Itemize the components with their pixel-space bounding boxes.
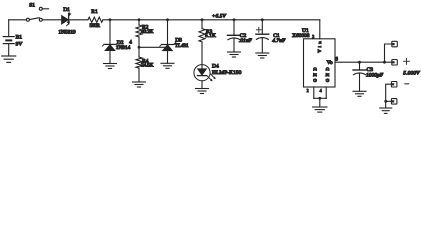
wire: rail to C2 <box>233 20 235 36</box>
connector J3 (- sense) <box>391 82 397 88</box>
svg-text:560R: 560R <box>90 23 101 29</box>
wire: R4 to ground <box>138 68 140 82</box>
wire: up to connector J1 <box>385 44 392 62</box>
ground (D3) <box>161 63 174 68</box>
ground (D2) <box>104 64 117 69</box>
svg-text:X60008: X60008 <box>292 33 310 39</box>
ground (output) <box>380 108 392 113</box>
battery B1 <box>3 34 22 56</box>
wire: rail to R2 <box>138 20 140 25</box>
capacitor C2 .01uF <box>228 33 253 52</box>
node: rail-C1 junction <box>261 18 264 21</box>
ground (D4) <box>196 89 209 94</box>
svg-text:5.1K: 5.1K <box>205 33 216 39</box>
node: rail-R2 junction <box>138 18 141 21</box>
svg-text:4: 4 <box>320 89 322 93</box>
ground (C1) <box>256 53 269 58</box>
pin 2 stub <box>313 87 315 98</box>
svg-text:D4: D4 <box>212 64 219 70</box>
svg-text:Vo: Vo <box>327 60 333 66</box>
wire: R2 to R4 <box>138 37 140 57</box>
wire: battery positive lead down <box>8 20 10 37</box>
wire: rail to R3 <box>201 20 203 29</box>
wire: U1 to ground <box>319 98 321 107</box>
svg-text:HLMP-K150: HLMP-K150 <box>212 70 242 76</box>
node: rail-D2 junction <box>109 18 112 21</box>
svg-text:6: 6 <box>68 12 70 16</box>
connector J2 (+ force) <box>392 60 398 66</box>
node: output ground junction <box>384 100 387 103</box>
svg-text:.01uF: .01uF <box>239 38 253 44</box>
wire: down to ground <box>385 101 387 108</box>
resistor R4 24.5K <box>136 57 154 68</box>
op-amp U1 X60008 (reference IC box) <box>292 28 338 98</box>
node: Vo-output junction <box>383 61 386 64</box>
wire: rail corner down to U1 Vin <box>319 20 321 39</box>
switch S1 <box>26 3 48 22</box>
ground (U1) <box>313 107 327 112</box>
svg-text:1000pF: 1000pF <box>366 72 384 78</box>
LED D4 HLMP-K150 <box>194 64 242 81</box>
wire: Vo to C3 <box>359 62 361 70</box>
svg-text:4: 4 <box>68 20 70 24</box>
svg-text:Vin: Vin <box>317 41 322 53</box>
svg-text:4: 4 <box>129 40 132 46</box>
wire: rail to C1 <box>261 20 263 34</box>
svg-text:+6.5V: +6.5V <box>212 14 227 20</box>
wire: D1 to R1 <box>69 19 88 21</box>
diode D1 1N5819 <box>58 7 75 36</box>
svg-text:2: 2 <box>312 35 314 39</box>
ground (C2) <box>228 52 241 57</box>
diode D2 1N914 <box>102 40 130 63</box>
node: rail-R3 junction <box>201 18 204 21</box>
svg-text:24.5K: 24.5K <box>141 62 154 68</box>
pin 4 stub <box>325 87 327 98</box>
svg-text:B1: B1 <box>16 34 23 40</box>
svg-text:2: 2 <box>307 89 309 93</box>
svg-text:9V: 9V <box>16 41 23 47</box>
ground (C3) <box>353 91 366 96</box>
node: U1 ground junction <box>318 97 321 100</box>
wire: R3 to D4 <box>201 42 203 69</box>
wire: to connector J4 <box>386 100 392 102</box>
svg-text:GND: GND <box>313 68 318 83</box>
shunt reference D3 TL431 <box>160 38 189 64</box>
capacitor C3 1000pF <box>353 67 384 91</box>
svg-text:S1: S1 <box>29 3 35 9</box>
resistor R3 5.1K <box>199 29 216 42</box>
svg-text:GND: GND <box>325 68 330 83</box>
node: rail-D3 junction <box>166 18 169 21</box>
node: Vo-C3 junction <box>358 61 361 64</box>
svg-text:40.2K: 40.2K <box>141 29 154 35</box>
ground (R4) <box>133 82 146 87</box>
wire: D2 branch <box>109 20 111 45</box>
connector J4 (- force) <box>391 99 397 105</box>
svg-text:1N5819: 1N5819 <box>58 30 75 36</box>
wire: R1 to U1 (+6.5V rail) <box>103 19 320 21</box>
svg-text:TL431: TL431 <box>175 43 189 49</box>
wire: connector J3 to ground link <box>386 84 392 101</box>
resistor R1 560R <box>88 9 103 29</box>
wire: switch to D1 <box>42 19 62 21</box>
svg-text:R1: R1 <box>91 9 98 15</box>
node: rail-C2 junction <box>233 18 236 21</box>
wire: rail to D3 <box>167 20 169 45</box>
wire: divider to D3 ref <box>139 46 165 48</box>
wire: D4 to ground <box>201 81 203 89</box>
resistor R2 40.2K <box>136 25 154 37</box>
svg-text:5.000V: 5.000V <box>403 71 420 77</box>
ground (battery) <box>2 56 16 62</box>
capacitor C1 4.7uF <box>256 27 286 53</box>
connector J1 (+ sense) <box>392 41 398 47</box>
node A (divider junction, net 4) <box>138 46 141 49</box>
svg-text:4.7uF: 4.7uF <box>272 37 286 44</box>
wire: U1 Vo output line <box>335 61 392 63</box>
wire: battery top to switch <box>9 19 27 21</box>
svg-text:1N914: 1N914 <box>116 45 131 51</box>
